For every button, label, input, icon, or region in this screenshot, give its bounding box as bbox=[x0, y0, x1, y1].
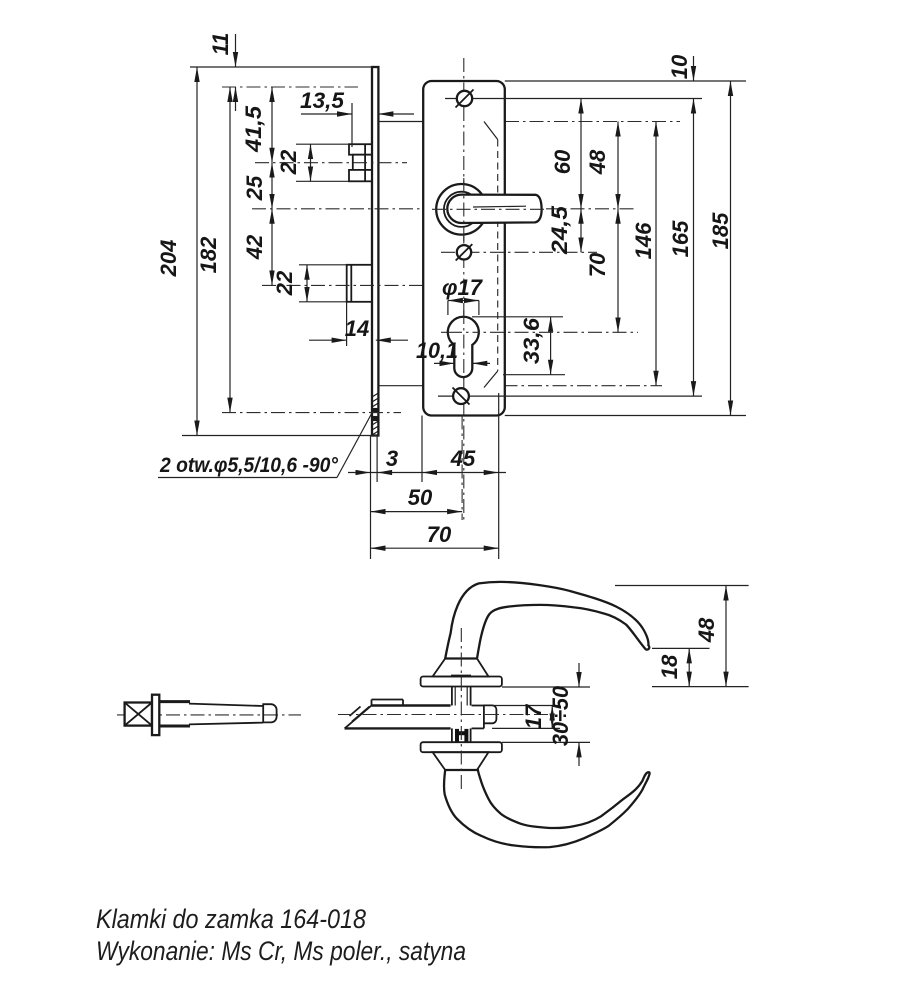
keyhole centerline bbox=[441, 331, 638, 333]
dim 10 bbox=[693, 56, 695, 81]
lower rose flange bbox=[421, 742, 502, 752]
keyhole (euro profile cylinder) bbox=[448, 317, 479, 377]
bottom screw centerline bbox=[438, 395, 702, 397]
svg-text:25: 25 bbox=[242, 175, 267, 201]
dim 70 right bbox=[617, 209, 619, 332]
case top centerline through plate and to right dims bbox=[426, 121, 484, 123]
spindle bar with chisel end bbox=[345, 700, 497, 729]
upper boss (follower nut) on lock case bbox=[349, 144, 372, 181]
spindle square head bbox=[125, 703, 152, 726]
dim 17 bbox=[492, 705, 560, 707]
svg-text:48: 48 bbox=[585, 149, 610, 175]
svg-text:φ17: φ17 bbox=[442, 275, 484, 300]
boss edge extension lines bbox=[296, 143, 349, 145]
svg-text:22: 22 bbox=[276, 149, 301, 175]
svg-text:146: 146 bbox=[631, 222, 656, 259]
case bottom line bbox=[378, 385, 430, 387]
lever inner edge line bbox=[473, 205, 526, 208]
upper boss centerline y=162.7 bbox=[255, 162, 407, 164]
svg-text:41,5: 41,5 bbox=[241, 105, 266, 153]
svg-text:70: 70 bbox=[427, 522, 452, 547]
svg-text:14: 14 bbox=[345, 316, 369, 341]
top screw centerline bbox=[445, 98, 702, 100]
dim 13,5 bbox=[301, 113, 352, 115]
dim 48 bbox=[617, 122, 619, 209]
spindle end cap bbox=[263, 704, 276, 722]
dim 22 lower bbox=[306, 265, 308, 302]
extension vertical for 14 bbox=[346, 302, 348, 346]
dim 182 bbox=[229, 87, 231, 413]
svg-text:42: 42 bbox=[242, 234, 267, 260]
svg-text:45: 45 bbox=[450, 446, 476, 471]
svg-text:33,6: 33,6 bbox=[519, 317, 544, 364]
hub between roses bbox=[452, 687, 471, 743]
top edge extension line y=67 bbox=[190, 66, 372, 68]
dim 14 bbox=[309, 339, 347, 341]
dim 18 bbox=[652, 647, 710, 649]
dim 60 bbox=[580, 99, 582, 209]
lower boss centerline y=285.4 bbox=[262, 284, 430, 286]
top screw bbox=[457, 91, 472, 106]
case right hidden edge bbox=[497, 140, 499, 372]
spindle flange bbox=[152, 695, 159, 735]
case top hidden line between views bbox=[378, 121, 426, 123]
dim 50 bbox=[371, 511, 463, 513]
svg-text:185: 185 bbox=[708, 212, 733, 249]
extension verticals below views bbox=[370, 436, 372, 559]
dim 24,5 bbox=[580, 209, 582, 253]
handle rose inner ring bbox=[444, 192, 479, 227]
dim 11 bbox=[235, 34, 237, 67]
lower boss (cylinder nut) on lock case bbox=[347, 265, 372, 302]
hub vertical centerline bbox=[460, 628, 462, 790]
svg-text:165: 165 bbox=[668, 220, 693, 257]
spindle shaft bbox=[189, 704, 263, 706]
lever handle (front view) bbox=[447, 195, 541, 223]
dim 165 bbox=[693, 99, 695, 397]
svg-text:17: 17 bbox=[521, 703, 546, 729]
svg-text:18: 18 bbox=[657, 654, 682, 679]
svg-text:2 otw.φ5,5/10,6 -90°: 2 otw.φ5,5/10,6 -90° bbox=[159, 454, 338, 477]
centerline over lever bbox=[432, 208, 548, 210]
faceplate hole centerline y=87 bbox=[222, 86, 358, 88]
bottom screw bbox=[453, 388, 469, 404]
dim chain 41,5 / 25 / 42 bbox=[271, 87, 273, 163]
svg-text:3: 3 bbox=[386, 446, 398, 471]
dim 48 bottom bbox=[615, 585, 749, 587]
upper handle bell cone bbox=[433, 659, 489, 677]
svg-text:204: 204 bbox=[156, 240, 181, 278]
spindle bar centerline bbox=[338, 714, 557, 716]
svg-text:11: 11 bbox=[208, 33, 233, 56]
bottom extension line y=435.5 bbox=[182, 435, 379, 437]
long plate (escutcheon) front view bbox=[423, 81, 505, 416]
svg-text:30÷50: 30÷50 bbox=[548, 685, 573, 746]
svg-text:Wykonanie: Ms Cr, Ms poler., s: Wykonanie: Ms Cr, Ms poler., satyna bbox=[96, 936, 466, 966]
dim 146 bbox=[655, 122, 657, 386]
extension vertical for 13,5 bbox=[351, 103, 353, 147]
svg-text:50: 50 bbox=[408, 485, 433, 510]
middle screw bbox=[457, 245, 471, 259]
faceplate hatch (countersunk hole section) bbox=[372, 393, 378, 435]
dim 30-50 bbox=[502, 686, 590, 688]
svg-text:70: 70 bbox=[585, 252, 610, 277]
upper rose flange bbox=[421, 677, 502, 687]
middle screw centerline bbox=[441, 251, 597, 253]
faceplate lower hole centerline y=412.6 bbox=[222, 412, 401, 414]
spindle collar (bold) bbox=[159, 702, 190, 726]
dim 10,1 bbox=[434, 362, 454, 364]
handle rose outer ring bbox=[436, 184, 487, 235]
svg-text:10: 10 bbox=[667, 54, 692, 79]
dim 70 bottom bbox=[371, 547, 499, 549]
right side extension lines bbox=[505, 80, 746, 82]
case bottom chamfer (hidden) bbox=[484, 371, 498, 388]
dim 33,6 bbox=[472, 316, 563, 318]
svg-text:10,1: 10,1 bbox=[416, 338, 458, 363]
svg-text:Klamki do zamka 164-018: Klamki do zamka 164-018 bbox=[96, 904, 366, 934]
dim 185 bbox=[730, 81, 732, 416]
svg-text:24,5: 24,5 bbox=[547, 205, 572, 255]
svg-text:13,5: 13,5 bbox=[300, 88, 345, 113]
lower handle bell cone bbox=[433, 752, 489, 770]
dim phi17 bbox=[447, 301, 449, 316]
faceplate side view bbox=[372, 67, 378, 436]
case top chamfer (hidden) bbox=[484, 122, 498, 140]
spindle centerline bbox=[117, 714, 301, 716]
svg-text:182: 182 bbox=[196, 236, 221, 273]
dim 22 upper bbox=[310, 144, 312, 181]
spindle square section in hub (dark) bbox=[456, 729, 469, 742]
svg-text:48: 48 bbox=[694, 617, 719, 643]
svg-text:22: 22 bbox=[272, 270, 297, 296]
lower lever handle bbox=[444, 770, 650, 847]
upper lever handle bbox=[445, 582, 649, 659]
dim row 3 / 45 bbox=[348, 472, 506, 474]
plate vertical centerline bbox=[463, 58, 465, 520]
handle centerline y=208.8 (runs through both views) bbox=[252, 208, 634, 210]
dim 204 bbox=[196, 67, 198, 436]
svg-text:60: 60 bbox=[550, 149, 575, 174]
